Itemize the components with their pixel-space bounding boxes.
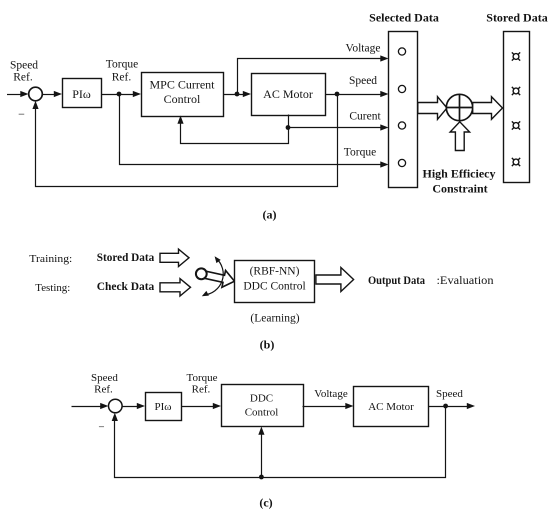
svg-text:Check Data: Check Data [97, 279, 155, 293]
wire: MPC to AC Motor (a) [223, 91, 251, 97]
wire: feedback branch to DDC (c) [258, 427, 264, 478]
node: current feedback junction (a) [286, 125, 291, 130]
stored data item symbol 1 [512, 52, 520, 60]
svg-text:Selected Data: Selected Data [369, 11, 439, 25]
label Stored Data (b) [97, 250, 155, 264]
label Stored Data [486, 11, 547, 25]
label Torque (a) [344, 147, 376, 159]
svg-text:PIω: PIω [154, 401, 171, 413]
stored data item symbol 4 [512, 158, 520, 166]
svg-text:Ref.: Ref. [13, 72, 33, 84]
label Voltage (a) [346, 43, 381, 55]
label Speed (c) [436, 388, 463, 400]
label (b) [260, 338, 275, 352]
block DDC Control (c) [222, 385, 304, 427]
svg-text:Torque: Torque [106, 59, 138, 71]
wire: speed output (c) [429, 403, 476, 409]
svg-text:Stored Data: Stored Data [486, 11, 547, 25]
summing junction (a) [29, 87, 43, 101]
wire: PI output to DDC (c) [182, 403, 222, 409]
block MPC Current Control (a) [142, 73, 224, 117]
selected data item circle 1 [398, 48, 405, 55]
switch rotation arc (b) [202, 256, 223, 296]
svg-text:Voltage: Voltage [314, 388, 348, 400]
svg-text:−: − [18, 107, 25, 121]
svg-text:MPC Current: MPC Current [149, 78, 215, 92]
wire: speed reference input (c) [72, 403, 109, 409]
svg-text:Constraint: Constraint [432, 182, 487, 196]
node: speed feedback junction (c) [443, 404, 448, 409]
label Output Data [368, 273, 425, 287]
svg-text:Training:: Training: [29, 253, 72, 265]
svg-text:Speed: Speed [349, 75, 377, 87]
block Stored Data column [504, 32, 530, 183]
label (c) [259, 496, 272, 510]
block arrow: selected data to constraint circle [418, 97, 447, 120]
selected data item circle 3 [398, 122, 405, 129]
label Selected Data [369, 11, 439, 25]
svg-text:Voltage: Voltage [346, 43, 381, 55]
svg-text:PIω: PIω [72, 87, 91, 101]
switch lever block arrow (b) [203, 270, 235, 287]
svg-text:Curent: Curent [349, 111, 381, 123]
svg-text:(c): (c) [259, 496, 272, 510]
wire: current signal to selected data (a) [289, 115, 389, 131]
label Torque Ref. (a) [106, 59, 138, 84]
wire: speed output to selected data (a) [326, 91, 389, 97]
block PI-omega controller (c) [146, 393, 182, 421]
node: DDC feedback junction (c) [259, 475, 264, 480]
svg-text:Speed: Speed [10, 60, 38, 72]
svg-text:Control: Control [245, 407, 279, 419]
block arrow: stored data input (b) [160, 249, 189, 266]
wire: speed feedback to summing junction (a) [32, 95, 337, 187]
wire: PI output to MPC (a) [101, 91, 141, 97]
svg-text:AC Motor: AC Motor [263, 87, 313, 101]
svg-text:Ref.: Ref. [112, 72, 132, 84]
svg-text:(RBF-NN): (RBF-NN) [250, 266, 300, 278]
block Selected Data column [389, 32, 418, 188]
stored data item symbol 2 [512, 87, 520, 95]
label :Evaluation [437, 275, 494, 287]
block AC Motor (a) [252, 74, 326, 116]
svg-text:Speed: Speed [436, 388, 463, 400]
wire: DDC to AC Motor (c) [303, 403, 354, 409]
svg-text:AC Motor: AC Motor [368, 401, 414, 413]
summing junction (c) [109, 399, 123, 413]
svg-text:DDC: DDC [250, 393, 273, 405]
wire: speed feedback loop (c) [112, 407, 446, 478]
label Curent (a) [349, 111, 381, 123]
block arrow: DDC output (b) [316, 268, 354, 292]
block arrow: high efficiency constraint input [450, 122, 470, 151]
svg-text:(b): (b) [260, 338, 275, 352]
svg-text:Ref.: Ref. [94, 384, 113, 396]
svg-text:Testing:: Testing: [35, 282, 70, 294]
svg-text:DDC Control: DDC Control [243, 281, 305, 293]
svg-text:Stored Data: Stored Data [97, 250, 155, 264]
svg-text::Evaluation: :Evaluation [437, 275, 494, 287]
label Testing: [35, 282, 70, 294]
label Voltage (c) [314, 388, 348, 400]
selected data item circle 2 [398, 85, 405, 92]
svg-text:High Efficiecy: High Efficiecy [423, 167, 496, 181]
label Training: [29, 253, 72, 265]
node: speed feedback junction (a) [335, 92, 340, 97]
wire: speed reference input (a) [7, 91, 29, 97]
svg-text:Ref.: Ref. [192, 384, 211, 396]
label (Learning) [250, 313, 299, 325]
svg-text:Control: Control [164, 92, 201, 106]
block AC Motor (c) [354, 387, 429, 427]
minus sign at summing junction (a) [18, 107, 25, 121]
wire: current feedback to MPC (a) [177, 116, 288, 144]
constraint crossed circle [446, 94, 472, 120]
wire: summing junction to PI controller (c) [122, 403, 145, 409]
svg-text:−: − [98, 422, 104, 434]
label Speed (a) [349, 75, 377, 87]
block arrow: constraint circle to stored data [473, 97, 503, 120]
svg-text:(a): (a) [263, 208, 277, 222]
minus sign at summing junction (c) [98, 422, 104, 434]
node: torque reference junction (a) [117, 92, 122, 97]
wire: summing junction to PI controller (a) [42, 91, 62, 97]
block PI-omega controller (a) [63, 79, 102, 108]
label (a) [263, 208, 277, 222]
svg-text:Output Data: Output Data [368, 273, 425, 287]
stored data item symbol 3 [512, 121, 520, 129]
svg-text:Speed: Speed [91, 372, 118, 384]
block DDC Control (b) [235, 261, 315, 303]
switch pivot circle (b) [196, 268, 207, 279]
selected data item circle 4 [398, 159, 405, 166]
node: voltage tap junction (a) [235, 92, 240, 97]
label High Efficiecy Constraint [423, 167, 496, 196]
svg-text:Torque: Torque [187, 372, 218, 384]
label Check Data (b) [97, 279, 155, 293]
svg-text:Torque: Torque [344, 147, 376, 159]
svg-text:(Learning): (Learning) [250, 313, 299, 325]
block arrow: check data input (b) [160, 279, 191, 296]
label Speed Ref. (a) [10, 60, 38, 84]
wire: torque signal to selected data (a) [120, 95, 389, 168]
label Speed Ref. (c) [91, 372, 118, 396]
wire: voltage signal to selected data (a) [238, 55, 389, 94]
label Torque Ref. (c) [187, 372, 218, 396]
